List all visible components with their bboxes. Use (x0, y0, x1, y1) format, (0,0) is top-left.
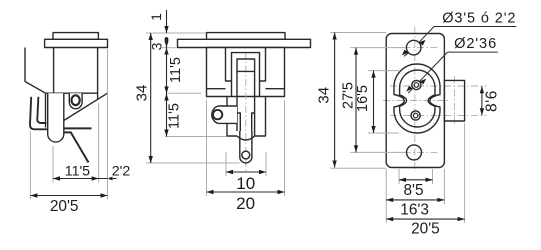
dimension 8'5 (399, 179, 433, 181)
ext 34 bottom (330, 167, 386, 169)
dimension 2'2 line with outside arrows (99, 178, 117, 180)
figure-8 recess outer outline (394, 64, 440, 133)
top hole horizontal center (390, 47, 440, 49)
dimension 10 line (226, 171, 266, 173)
dimension 34 (middle view, left) (150, 33, 152, 163)
front view inner shelf lines (207, 88, 285, 90)
dimension 34 right view (334, 33, 336, 168)
front view right lower block (255, 97, 266, 137)
extension lines left view (30, 49, 107, 199)
top mounting hole (406, 40, 421, 55)
front view channel step (237, 113, 255, 131)
svg-text:1: 1 (148, 13, 164, 21)
ext lug bottom (146, 162, 240, 164)
dimension 11'5 arrows (53, 176, 99, 180)
dimension 16'5 (373, 71, 375, 133)
front view top block (207, 33, 286, 40)
face plate rounded rect (386, 34, 444, 168)
dimension 27'5 (355, 48, 357, 153)
side view top block (53, 33, 98, 40)
ext 20 left (206, 100, 208, 196)
leader for mounting hole diameter (404, 27, 516, 57)
ext 16'3 right (443, 169, 445, 204)
side view lug hole (72, 95, 80, 105)
side view center pin (48, 93, 64, 142)
ext 10 right (265, 152, 267, 176)
front view bottom lug (240, 131, 252, 163)
front view dome over lug (237, 136, 255, 140)
ext 27'5 top (350, 47, 406, 49)
svg-text:34: 34 (134, 85, 151, 102)
svg-text:Ø2'36: Ø2'36 (454, 36, 497, 52)
top pin horizontal center (390, 85, 487, 87)
side block (right of plate) (444, 80, 464, 121)
arrows at 93.5 boundary (164, 87, 168, 101)
dimension 3 arrows (164, 41, 168, 55)
side view bent pin going down-right (64, 132, 89, 162)
ext 8'5 right (432, 169, 434, 184)
svg-text:16'5: 16'5 (355, 85, 371, 112)
ext 16'3/20'5 left (385, 169, 387, 223)
gray extension lines right view (330, 33, 464, 224)
ext 20'5 right (464, 123, 466, 223)
ext 8'5 left (398, 169, 400, 184)
svg-text:11'5: 11'5 (168, 57, 184, 83)
dimension 16'3 (386, 199, 444, 201)
arrow at 136.5 (164, 130, 168, 137)
front view mid bracket (232, 53, 260, 97)
waist horizontal center (383, 100, 448, 102)
svg-text:8'6: 8'6 (484, 90, 501, 112)
figure-8 recess inner outline (400, 70, 435, 127)
ext 10 left (225, 152, 227, 176)
svg-text:8'5: 8'5 (403, 182, 423, 199)
ext 20 right (284, 100, 286, 196)
bottom mounting hole (407, 145, 422, 160)
svg-text:2'2: 2'2 (112, 164, 131, 180)
gray extension lines middle (146, 33, 285, 196)
ext line 11'5 right / 2'2 left (98, 103, 100, 183)
ext mid flange bottom (162, 47, 177, 49)
front view vertical center line (245, 52, 247, 171)
dimension 1 (vertical, top) (166, 10, 168, 33)
dimension 11'5 upper (vertical) (166, 39, 168, 137)
dimension 20'5 line (30, 195, 107, 197)
side view flange (45, 39, 108, 47)
ext 34 top (330, 32, 386, 34)
svg-text:10: 10 (236, 174, 255, 193)
ext line 11'5 left (52, 146, 54, 183)
front view pin top (237, 70, 255, 72)
side view straight pin (64, 127, 92, 129)
side view body outline (25, 48, 108, 128)
ext line 2'2 right (107, 49, 109, 199)
bottom pin (411, 111, 420, 120)
top pin (412, 80, 421, 89)
svg-text:20'5: 20'5 (411, 221, 440, 238)
front view inner channel (237, 59, 255, 136)
gray center lines right view (383, 27, 487, 172)
ext line 20'5 left (29, 131, 31, 199)
front view side tab hole (213, 110, 222, 119)
ext 16'5 bottom (368, 132, 399, 134)
ext top block top (146, 32, 206, 34)
vertical center line (414, 27, 416, 172)
dimension 11'5 line (53, 178, 99, 180)
block vertical center (453, 76, 455, 125)
svg-text:11'5: 11'5 (65, 164, 90, 180)
face plate white fill (386, 34, 464, 168)
front view body (207, 48, 285, 97)
ext 27'5 bottom (350, 151, 406, 153)
dimension 8'6 (481, 86, 483, 115)
ext blocks bottom (165, 136, 227, 138)
front view outer channel (226, 48, 266, 82)
front view side tab (212, 106, 237, 123)
svg-text:34: 34 (316, 87, 333, 104)
side view solder lug (69, 93, 82, 109)
bottom pin horizontal center (390, 114, 487, 116)
svg-text:16'3: 16'3 (400, 201, 429, 218)
dimension 20'5 right view (386, 218, 464, 220)
leader for pin diameter (408, 52, 498, 93)
svg-text:20'5: 20'5 (50, 198, 79, 215)
front view lug hole (242, 151, 250, 159)
svg-text:Ø3'5 ó 2'2: Ø3'5 ó 2'2 (442, 10, 516, 26)
svg-text:11'5: 11'5 (167, 103, 183, 129)
bottom hole horizontal center (390, 151, 440, 153)
svg-text:20: 20 (236, 194, 255, 213)
front view left lower block (227, 97, 237, 137)
dimension 20 line (207, 191, 285, 193)
ext mid 11'5 boundary (168, 92, 202, 94)
ext 16'5 top (368, 70, 399, 72)
side view bent wire pin (hook) (30, 97, 48, 130)
front view flange (178, 39, 311, 47)
dimension 20'5 arrows (30, 193, 107, 197)
